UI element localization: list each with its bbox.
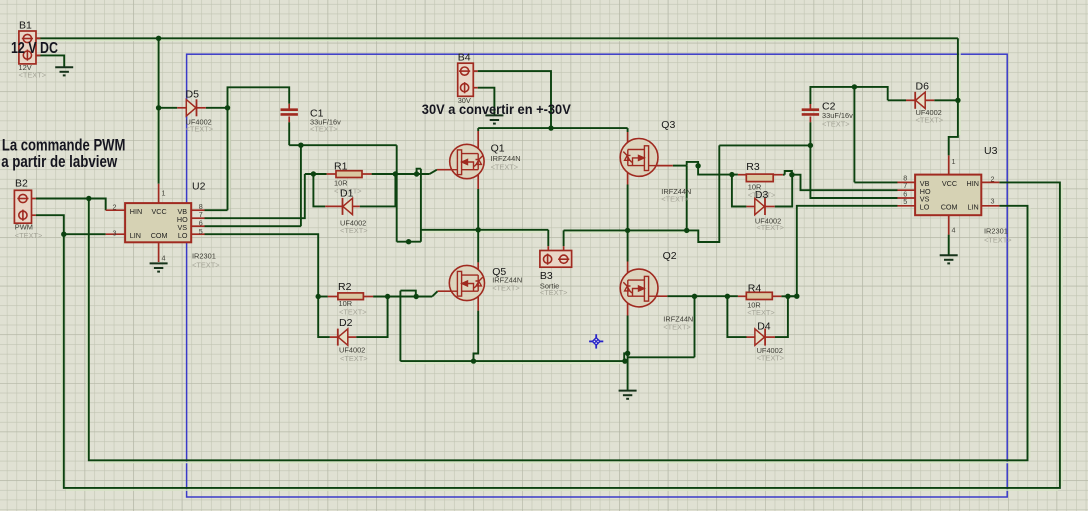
lead R3 right [773,174,783,176]
wire VS-net vertical x421 [420,169,422,242]
svg-text:IR2301: IR2301 [984,227,1008,236]
wire B2 minus to U2 LIN [64,233,106,235]
wire R4 right link [781,295,796,297]
svg-text:D1: D1 [340,188,354,200]
origin marker [589,334,603,348]
connector B3 Sortie [540,251,572,268]
wire U3 VB run [853,87,855,182]
lead D6 cathode [906,99,915,101]
wire B2 minus row [36,215,64,234]
pin stub U3 VB [897,181,915,183]
wire D6 anode link [934,99,958,101]
resistor R4 body [746,292,772,299]
wire VS-net vertical x397 [396,145,398,242]
pin stub U2 LIN [106,233,125,235]
junction D5 cathode node [225,105,230,110]
diode D5 symbol [186,99,196,116]
wire D2 left drop [318,297,330,338]
lead R2 right [363,296,373,298]
svg-text:12 V DC: 12 V DC [11,40,58,57]
diode D3 symbol [755,198,765,215]
wire D4 left drop [727,296,746,337]
wire halo [91,461,1025,463]
lead D1 anode [351,205,360,207]
junction B2 plus node [86,196,91,201]
lead D2 anode [347,336,356,338]
svg-text:<TEXT>: <TEXT> [984,235,1012,244]
wire R3 right row [783,174,785,176]
junction U3 LO drop [794,294,799,299]
lead Q3 drain red [627,132,629,150]
lead Q1 drain red [477,131,479,154]
pin stub U2 HIN [106,209,125,211]
svg-text:<TEXT>: <TEXT> [540,288,568,297]
ground under U3 COM [940,255,958,263]
junction Q1 source bus [476,227,481,232]
wire Q5 drain from bus [477,230,479,263]
wire halo [422,231,546,233]
svg-text:La commande PWM: La commande PWM [2,136,126,154]
wire halo [565,232,697,234]
wire D2 right riser [356,297,387,338]
wire Q1 gate diagonal [430,170,437,174]
junction R2 right / D2 [385,294,390,299]
lead Q5 gate [438,290,458,292]
svg-text:U3: U3 [984,145,998,157]
lead D3 anode [746,206,754,208]
svg-text:LO: LO [178,231,188,240]
IC U2 IR2301 body [125,203,191,242]
svg-text:D5: D5 [186,89,200,101]
diode D4 symbol [755,329,765,346]
lead Q5 source red [477,291,479,310]
wire R1 right row [372,173,430,175]
svg-text:D6: D6 [916,81,930,93]
wire B4 plus down [478,71,551,128]
lead B1 minus [36,54,40,56]
svg-text:U2: U2 [192,181,206,193]
svg-text:1: 1 [952,157,956,166]
wire right output bus [564,145,720,242]
ground under Q2 source [619,391,637,399]
lead D6 anode [925,99,934,101]
wire R3 hop notch [785,171,792,175]
svg-text:3: 3 [991,196,995,205]
wire U3 COM to ground [948,235,950,255]
lead B4 minus [473,87,477,89]
svg-text:3: 3 [113,228,117,237]
svg-text:4: 4 [162,254,166,263]
lead C1 top [288,104,290,110]
wire D5 cathode to node [206,107,228,109]
pin stub U3 VCC [948,155,950,174]
lead Q3 gate [650,165,673,167]
svg-text:<TEXT>: <TEXT> [310,125,338,134]
lead Q1 source red [477,170,479,189]
svg-text:LIN: LIN [968,203,979,212]
wire halo [229,89,231,208]
lead D5 cathode [195,107,206,109]
battery B1 [19,31,36,64]
wire C1 bottom row to x396 [289,144,397,146]
resistor R2 body [338,293,364,300]
lead B2 minus [32,214,36,216]
wire Q5 source jog [474,311,479,362]
connector B4 [458,63,474,96]
junction R1 left / D1 [311,171,316,176]
lead R1 left [327,173,336,175]
wire VS-net bottom link [397,241,421,243]
svg-text:Q3: Q3 [661,119,675,131]
svg-text:VCC: VCC [152,207,167,216]
svg-text:<TEXT>: <TEXT> [492,284,520,293]
lead Q1 gate [437,169,458,171]
ground under B4 [485,115,503,123]
junction R1 right / D1 [393,171,398,176]
pin stub U2 LO [191,233,204,235]
wire U3 LIN loop [89,199,1028,461]
wire Q2 source jog [624,353,627,361]
wire halo [66,489,1058,491]
junction Q2 source jog [625,351,630,356]
wire Q2 source down [627,316,629,391]
svg-text:2: 2 [991,175,995,184]
mosfet Q1 symbol [450,144,484,178]
wire Q1 drain [477,128,479,131]
svg-text:a partir de labview: a partir de labview [1,153,117,171]
pin stub U3 COM [948,215,950,234]
wire U3 HIN loop [64,182,1060,488]
resistor R1 body [336,171,362,178]
junction R3 right / D3 [789,172,794,177]
lead D3 cathode [765,206,774,208]
lead D4 anode [747,336,755,338]
lead R4 right [772,295,781,297]
svg-text:<TEXT>: <TEXT> [15,231,43,240]
pin stub U2 HO [191,217,204,219]
wire 12V rail drop to U2 VCC [158,38,160,184]
svg-text:D3: D3 [755,189,769,201]
wire D5 anode [159,107,178,109]
wire VS riser x301 [300,145,302,226]
lead R4 left [738,295,746,297]
svg-text:<TEXT>: <TEXT> [661,194,689,203]
wire +12V top rail [36,37,958,39]
svg-text:COM: COM [151,231,168,240]
wire R1 hop notch [417,169,421,174]
junction C1 bottom / VS [298,143,303,148]
lead Q3 source red [627,166,629,185]
wire U3 VB row [854,181,897,183]
wire halo [156,40,158,182]
pin stub U2 VB [191,209,204,211]
wire U2 HO pin7 run [204,174,304,218]
svg-text:D2: D2 [339,317,353,329]
wire VS riser x810 [810,145,897,198]
junction D5 anode node [156,105,161,110]
wire halo [86,201,88,459]
wire U2 VS pin6 run [204,225,301,227]
svg-text:Q1: Q1 [491,143,505,155]
wire Q5 gate diagonal [432,291,437,296]
wire halo [40,39,956,41]
junction x687 bus [684,228,689,233]
svg-text:33uF/16v: 33uF/16v [822,111,853,120]
wire Q3 gate hop notch [687,162,698,166]
lead B3 right [563,246,565,250]
lead Q2 source red [627,296,629,315]
wire D3 left drop [732,175,747,207]
junction +30V rail / B4 [548,125,553,130]
junction R1 gate notch [414,171,419,176]
junction B2 minus node [61,232,66,237]
junction R4 left / D4 [725,294,730,299]
wire Q2 drain [627,230,629,261]
wire C2 bottom row [719,144,810,146]
wire Q3 source-net vertical x687 [686,166,688,231]
IC U3 IR2301 body [915,175,981,216]
svg-text:<TEXT>: <TEXT> [822,120,850,129]
svg-text:R2: R2 [338,281,352,293]
lead C2 bottom [809,117,811,123]
svg-text:<TEXT>: <TEXT> [339,307,367,316]
svg-text:VCC: VCC [942,179,957,188]
wire Q3 gate to R3 [698,166,738,175]
wire gate-link horizontal y357 [628,356,695,358]
svg-text:<TEXT>: <TEXT> [186,125,214,134]
lead C2 top [809,104,811,110]
lead B2 plus [32,198,36,200]
lead B1 plus [36,37,40,39]
svg-text:<TEXT>: <TEXT> [756,223,784,232]
wire +12V rail right drop [949,38,958,155]
svg-text:2: 2 [113,203,117,212]
wire U2 LO pin5 run [204,234,318,296]
wire node up-over to C1 [228,87,290,210]
resistor R3 body [746,174,773,182]
wire B3 right lead riser [563,230,565,246]
svg-text:<TEXT>: <TEXT> [663,323,691,332]
lead Q2 gate [650,295,667,297]
lead B3 left [547,246,549,250]
svg-text:R1: R1 [334,160,348,172]
svg-text:COM: COM [941,203,958,212]
svg-text:1: 1 [162,189,166,198]
ground near B1 [55,67,73,75]
junction R2 left / D2 [316,294,321,299]
svg-text:<TEXT>: <TEXT> [747,308,775,317]
connector B2 [14,190,31,223]
wire Q3 gate row [673,165,687,167]
junction R3 left / D3 [729,172,734,177]
wire U3 LO run [788,206,898,296]
wire gate-gnd vertical x400 [399,291,401,362]
junction Q3 gate node [695,163,700,168]
lead D2 cathode [330,336,338,338]
svg-text:5: 5 [903,197,907,206]
lead D1 cathode [325,205,342,207]
svg-text:R4: R4 [748,283,762,295]
lead R3 left [738,174,746,176]
diode D1 symbol [343,198,353,215]
wire +30V rail [478,127,627,129]
lead R2 left [328,296,338,298]
wire Q2 gate row [667,295,738,297]
wire B1 minus to ground [36,55,64,66]
svg-text:B1: B1 [19,20,32,32]
junction Q2 drain bus [625,228,630,233]
lead Q5 drain red [477,262,479,275]
wire U2 VB pin8 run [204,209,227,211]
lead Q2 drain red [627,262,629,281]
svg-text:HIN: HIN [967,179,979,188]
wire D3 right riser [775,175,793,207]
junction R4 right / D4 [785,294,790,299]
wire R1 left row [305,173,327,175]
svg-text:R3: R3 [746,161,760,173]
blue sheet border [187,54,1008,497]
mosfet Q5 symbol [449,265,484,300]
ground under U2 COM [150,263,168,271]
svg-text:B4: B4 [458,52,471,64]
mosfet Q3 symbol [620,139,658,177]
pin stub U2 VS [191,225,204,227]
svg-text:IR2301: IR2301 [192,252,216,261]
pin stub U3 LO [897,205,915,207]
wire halo [1061,185,1063,487]
svg-text:5: 5 [199,227,203,236]
pin stub U2 VCC [158,184,160,203]
junction C2 top / VB [852,84,857,89]
diode D2 symbol [338,329,348,346]
wire halo [402,362,623,364]
svg-text:B3: B3 [540,270,553,282]
lead D5 anode [177,107,186,109]
wire D1 left drop [313,174,325,206]
junction VS-net link [406,239,411,244]
pin stub U3 LIN [981,205,999,207]
diode D6 symbol [915,92,925,109]
junction gnd-net / Q2 source [622,358,627,363]
svg-text:<TEXT>: <TEXT> [757,354,785,363]
pin stub U2 COM [158,242,160,262]
junction Q5 source gnd-net [471,358,476,363]
lead R1 right [362,173,372,175]
capacitor C2 plates [802,110,819,115]
svg-text:<TEXT>: <TEXT> [192,260,220,269]
wire halo [959,40,961,135]
wire R2 hop notch [400,291,415,297]
wire D4 right riser [775,296,788,337]
wire Q3 drain [627,128,629,132]
junction 12V rail / U2 VCC [156,36,161,41]
pin stub U3 HO [897,189,915,191]
wire B3 left lead riser [547,230,549,246]
wire Q3 source [627,185,629,231]
svg-text:LIN: LIN [130,231,141,240]
svg-text:<TEXT>: <TEXT> [491,163,519,172]
wire R3 to U3 HO [792,175,898,191]
mosfet Q2 symbol [620,269,658,307]
pin stub U3 HIN [981,181,999,183]
wire C2 bottom [809,122,811,145]
lead D4 cathode [766,336,776,338]
junction D6 anode / 12V [955,98,960,103]
wire gate-link vertical x694 [694,296,696,357]
lead B4 plus [473,70,477,72]
wire B2 plus row [36,199,106,211]
wire C1 bottom [288,122,290,145]
junction R2 gate notch [414,294,419,299]
wire halo [61,236,63,486]
wire B4 minus to ground [478,88,495,115]
svg-text:D4: D4 [757,321,771,333]
svg-text:<TEXT>: <TEXT> [340,226,368,235]
svg-text:30V a convertir en +-30V: 30V a convertir en +-30V [422,102,571,117]
wire D1 right riser [360,174,396,206]
svg-text:B2: B2 [15,178,28,190]
pin stub U3 VS [897,197,915,199]
wire gnd-net long horizontal [400,360,625,362]
wire C2 top [810,87,887,104]
svg-text:HIN: HIN [130,207,142,216]
svg-text:<TEXT>: <TEXT> [19,71,47,80]
wire R2 left row [318,296,328,298]
svg-text:4: 4 [952,226,956,235]
svg-text:<TEXT>: <TEXT> [340,354,368,363]
wire D6 cathode link [888,99,906,101]
capacitor C1 plates [281,110,298,115]
junction C2 bottom / bus [808,143,813,148]
svg-text:Q2: Q2 [663,250,677,262]
svg-text:<TEXT>: <TEXT> [916,116,944,125]
wire left output bus [421,229,548,231]
lead C1 bottom [288,117,290,123]
wire Q1 source to bus [477,189,479,230]
svg-text:LO: LO [920,203,930,212]
junction Q2 gate link [692,294,697,299]
wire R2 right row [373,296,432,298]
wire halo [1029,208,1031,458]
